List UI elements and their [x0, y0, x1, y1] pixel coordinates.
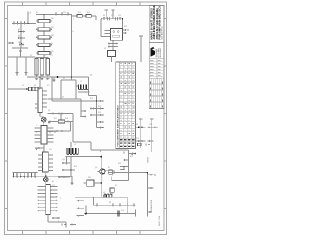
svg-text:R15: R15	[98, 106, 101, 108]
diode D2 cluster	[18, 37, 25, 39]
wire y172.6 long	[108, 172, 148, 174]
svg-text:R17: R17	[54, 118, 57, 120]
wire rail x140.7	[140, 119, 142, 147]
crossbar y46.5	[108, 46, 118, 48]
relay U5	[111, 29, 123, 41]
relay right marks	[123, 29, 127, 31]
svg-text:P1: P1	[63, 78, 65, 80]
svg-text:RY1: RY1	[124, 26, 127, 28]
svg-text:C15: C15	[149, 124, 152, 126]
IC U1	[38, 88, 42, 113]
misc reference labels	[30, 12, 152, 212]
svg-text:R1: R1	[36, 12, 38, 14]
capacitor C6	[46, 59, 50, 76]
svg-text:C10: C10	[63, 12, 66, 14]
transistor Q1	[100, 169, 105, 174]
ground G1	[16, 57, 18, 72]
wire loop right x76	[75, 80, 77, 99]
wire x71.4 lower	[70, 77, 72, 80]
resistor R7	[58, 120, 64, 123]
small box left	[109, 170, 113, 174]
svg-text:D2: D2	[18, 36, 20, 38]
wire y101	[52, 100, 97, 102]
svg-text:C14: C14	[121, 210, 124, 212]
IC U3	[43, 152, 49, 172]
wire top rail y14.5	[36, 14, 72, 16]
svg-text:R22: R22	[118, 163, 121, 165]
junction dots x81	[80, 110, 82, 112]
crossbar y141	[136, 140, 146, 142]
wire y121.5	[48, 121, 73, 123]
wire y213.5	[84, 213, 136, 215]
left border stub symbols	[8, 42, 14, 44]
svg-text:KIT NV-8055: KIT NV-8055	[158, 48, 160, 57]
svg-text:R13: R13	[87, 12, 90, 14]
svg-text:C2: C2	[44, 55, 46, 57]
svg-text:BELGIUM EC: BELGIUM EC	[160, 47, 162, 58]
capacitor C5	[40, 59, 44, 76]
svg-text:C7: C7	[62, 97, 64, 99]
node stub x113	[112, 10, 114, 19]
wire trio top y57.5	[36, 57, 49, 59]
junction	[20, 50, 22, 52]
svg-text:S1: S1	[115, 185, 117, 187]
title block revision grid	[149, 79, 164, 109]
wire y205.3	[94, 204, 136, 206]
frame zone tick marks	[5, 2, 167, 235]
svg-text:R19: R19	[74, 166, 77, 168]
resistor R3	[38, 36, 50, 39]
wire vertical x21	[20, 24, 22, 49]
resistor R8 box	[87, 180, 94, 186]
resistor R1	[38, 19, 50, 22]
svg-text:D5: D5	[103, 15, 105, 17]
junction	[80, 100, 82, 102]
wire rail x151.7	[151, 119, 153, 152]
resistor R5	[38, 51, 50, 54]
lamp B1	[39, 113, 41, 117]
svg-text:3: 3	[36, 132, 37, 134]
ground G3	[53, 77, 55, 80]
svg-text:D1: D1	[18, 29, 20, 31]
IC U4 long	[46, 185, 51, 215]
wire x88.5 to x96.5	[88, 92, 90, 96]
svg-text:4K7: 4K7	[51, 35, 54, 37]
junction below table	[131, 153, 133, 155]
stub below bus	[71, 176, 73, 182]
IC U2	[41, 126, 47, 145]
crossbar y127.3	[136, 126, 146, 128]
ground marks under trio	[35, 77, 38, 79]
wire y57 bus	[8, 56, 35, 58]
bus wire y176.2	[13, 175, 73, 177]
svg-text:T: T	[73, 19, 74, 21]
component marks y144	[138, 143, 141, 146]
wire v x70.5	[70, 122, 72, 132]
wire y48	[12, 47, 28, 49]
PCB component table	[116, 62, 136, 149]
svg-text:J1: J1	[22, 85, 24, 87]
wire y180.5	[112, 180, 129, 182]
svg-text:C13: C13	[62, 159, 65, 161]
wire y101 branch tick	[59, 100, 61, 101]
box F1	[108, 51, 116, 57]
wire rail x101.3	[100, 157, 102, 169]
capacitor C2	[108, 17, 110, 21]
svg-text:IC1: IC1	[47, 85, 50, 87]
capacitor C9	[117, 211, 119, 217]
svg-text:C8: C8	[90, 75, 92, 77]
svg-text:F1: F1	[104, 48, 106, 50]
terminals on bus	[13, 23, 15, 25]
stub marks left of rail	[90, 108, 97, 110]
node stub x106.2	[105, 10, 107, 19]
wire from loop to coil	[76, 85, 79, 87]
svg-text:220: 220	[51, 51, 54, 53]
svg-text:L2: L2	[74, 144, 76, 146]
ground G2	[25, 57, 27, 72]
wire y113.5	[48, 113, 74, 115]
crossbar y43.5	[108, 43, 118, 45]
drawing frame inner border	[8, 6, 165, 231]
resistor R2	[38, 28, 50, 31]
node VCC stub top-left	[27, 12, 29, 24]
svg-text:R12: R12	[78, 12, 81, 14]
svg-text:PCB COMPONENT IDENTIFICATION T: PCB COMPONENT IDENTIFICATION TABLE	[117, 105, 120, 147]
coil base wire	[66, 156, 81, 158]
resistor R6 marks	[19, 44, 24, 46]
svg-text:L1: L1	[80, 81, 82, 83]
svg-text:C11: C11	[111, 15, 114, 17]
wire rail x147.5 bottom	[147, 173, 149, 216]
title block info rows	[149, 59, 164, 79]
wire x122.5 down	[122, 19, 124, 29]
title block logo	[150, 49, 155, 58]
wire arrow from border	[8, 88, 26, 90]
capacitor marks on top rail	[55, 14, 57, 16]
wire v x73 long	[72, 114, 74, 143]
svg-text:K1: K1	[34, 85, 36, 87]
rail stubs	[148, 174, 154, 176]
wire below relay	[112, 40, 114, 50]
svg-text:2N3055: 2N3055	[147, 157, 149, 163]
svg-text:R6: R6	[19, 42, 21, 44]
side marks near U2 bottom	[38, 147, 44, 149]
wire below U4	[47, 215, 49, 223]
title block revision grid row text	[150, 82, 163, 108]
resistor chain vertical wire	[43, 15, 45, 59]
wire loop top y80	[61, 79, 76, 81]
svg-text:C12: C12	[118, 15, 121, 17]
resistor R10	[86, 15, 91, 18]
wire x101 down	[100, 19, 102, 37]
coil L2	[104, 194, 112, 197]
wire rail x71.4	[70, 15, 72, 78]
coil T1	[67, 148, 78, 154]
svg-text:IC4: IC4	[52, 185, 55, 187]
svg-text:C3: C3	[51, 55, 53, 57]
bottom annotation marks	[61, 224, 63, 226]
svg-text:Q1: Q1	[95, 167, 97, 169]
svg-text:5: 5	[72, 31, 73, 33]
svg-text:5: 5	[60, 198, 61, 200]
stub terminals on rail x96.5	[97, 100, 104, 102]
small box lower	[110, 188, 114, 192]
wire x141 to table	[140, 36, 142, 62]
left stub rows	[77, 200, 85, 202]
svg-text:L3: L3	[103, 192, 105, 194]
svg-text:IC3: IC3	[49, 149, 52, 151]
wire bus y77	[27, 76, 89, 78]
capacitor C4 (filled)	[35, 59, 39, 76]
coil L1	[79, 85, 89, 90]
diode D1 cluster	[18, 31, 25, 33]
svg-text:C1: C1	[30, 55, 32, 57]
capacitor C3	[116, 17, 118, 21]
svg-text:R16: R16	[98, 112, 101, 114]
wire loop bottom y99	[48, 98, 82, 100]
wire v x52	[51, 77, 53, 101]
wire rail x128.5	[128, 150, 130, 181]
wire step from rail	[73, 141, 91, 143]
svg-text:VOLTAGE TEST: VOLTAGE TEST	[150, 200, 153, 212]
svg-text:RL: RL	[108, 167, 110, 169]
table cell entries	[120, 63, 134, 147]
wire horizontal bus y23.5	[12, 23, 36, 25]
wire y18.8	[101, 18, 123, 20]
right rail x88.5 upper	[88, 77, 90, 92]
drawing frame outer border	[5, 2, 167, 235]
resistor R4	[38, 43, 50, 46]
svg-text:R18: R18	[65, 118, 68, 120]
wire loop left x61	[60, 80, 62, 99]
wire rail x96.5	[96, 96, 98, 128]
resistor R9	[77, 15, 82, 18]
svg-text:D8: D8	[109, 202, 111, 204]
svg-text:R14: R14	[90, 98, 93, 100]
svg-text:R21: R21	[130, 156, 133, 158]
terminal strip TB1	[13, 173, 36, 179]
wire y131	[46, 130, 71, 132]
svg-text:IC2: IC2	[48, 123, 51, 125]
svg-text:B2: B2	[52, 181, 54, 183]
svg-text:DOC 10-2 REV A: DOC 10-2 REV A	[161, 26, 164, 40]
svg-text:1: 1	[36, 125, 37, 127]
wire y16	[71, 15, 96, 17]
wire v x61	[60, 114, 62, 122]
svg-text:R20: R20	[88, 177, 91, 179]
stub verticals	[85, 205, 87, 213]
title block	[149, 4, 164, 108]
svg-text:Q3: Q3	[48, 110, 50, 112]
svg-text:L: L	[58, 221, 59, 223]
svg-text:D9: D9	[136, 124, 138, 126]
lamp B2	[44, 177, 49, 182]
ground arrow marks left	[49, 131, 51, 132]
coil lower stubs	[66, 157, 68, 163]
svg-text:D10: D10	[136, 138, 139, 140]
connector J1 three squares	[29, 87, 32, 91]
wire y197.3	[75, 196, 127, 198]
stubs on rail	[124, 159, 129, 161]
